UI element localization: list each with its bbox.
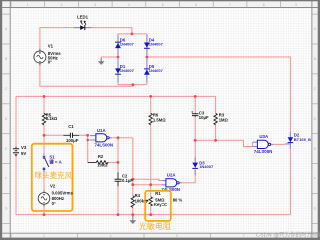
diode D6	[115, 35, 134, 56]
svg-text:B: B	[314, 57, 316, 61]
capacitor C3	[191, 110, 209, 120]
svg-text:S1: S1	[49, 154, 55, 159]
svg-text:1: 1	[27, 3, 29, 7]
svg-text:B: B	[5, 57, 7, 61]
diode D3	[192, 157, 214, 175]
svg-text:咪头麦克风: 咪头麦克风	[35, 170, 73, 180]
source V2	[38, 184, 73, 207]
svg-text:Key=C: Key=C	[154, 202, 167, 207]
svg-text:7: 7	[229, 3, 231, 7]
svg-text:1MΩ: 1MΩ	[219, 118, 229, 123]
svg-text:R2: R2	[98, 154, 104, 159]
svg-text:1N4007: 1N4007	[149, 41, 164, 46]
svg-text:1N4007: 1N4007	[120, 41, 135, 46]
svg-text:10kΩ: 10kΩ	[97, 163, 108, 168]
svg-text:8: 8	[263, 3, 265, 7]
photoresistor box 光敏电阻	[139, 191, 171, 231]
wire bridge bottom rail	[118, 84, 147, 86]
thyristor D2	[285, 132, 311, 149]
ground (bridge left)	[98, 58, 105, 65]
wire R4 bottom and ground stub	[132, 206, 134, 218]
resistor R2	[88, 154, 109, 167]
svg-text:V3: V3	[21, 145, 27, 150]
potentiometer R1	[145, 191, 182, 207]
svg-text:0.1μF: 0.1μF	[122, 178, 133, 183]
svg-text:1N4007: 1N4007	[120, 68, 135, 73]
switch S1	[43, 154, 61, 173]
svg-text:V1: V1	[48, 44, 54, 49]
svg-text:0°: 0°	[52, 201, 56, 206]
svg-text:R4: R4	[135, 193, 141, 198]
svg-text:光敏电阻: 光敏电阻	[139, 221, 171, 231]
svg-text:0°: 0°	[48, 60, 52, 65]
resistor R4	[131, 193, 148, 207]
LED LED1	[74, 14, 92, 30]
wire bridge right column	[146, 34, 148, 85]
resistor R5	[42, 112, 58, 124]
diode D5	[144, 59, 164, 83]
svg-text:2: 2	[61, 3, 63, 7]
svg-text:3: 3	[94, 3, 96, 7]
wire U1A input tie and R2 left	[88, 135, 90, 162]
resistor R6	[149, 113, 166, 125]
mic box 咪头麦克风	[32, 144, 73, 211]
svg-text:C1: C1	[68, 124, 74, 129]
wire ground tap to bridge left mid	[101, 57, 118, 61]
resistor R3	[214, 113, 229, 125]
wire vertical A through C2 to bottom rail	[117, 138, 119, 215]
wire V1 top to LED to bridge top	[40, 28, 132, 51]
nand gate U3A	[252, 134, 273, 154]
svg-text:9: 9	[295, 3, 297, 7]
svg-text:1N4007: 1N4007	[199, 164, 214, 169]
svg-text:7: 7	[243, 234, 245, 238]
ground (bottom rail)	[129, 215, 136, 224]
wire U3A output to SCR gate	[273, 143, 285, 145]
svg-text:V2: V2	[50, 184, 56, 189]
svg-text:键 = A: 键 = A	[49, 159, 61, 166]
svg-text:E: E	[314, 147, 316, 151]
svg-text:U2A: U2A	[167, 173, 177, 178]
wire vertical B	[132, 138, 134, 196]
svg-text:80 %: 80 %	[173, 198, 183, 203]
wire bridge right mid to SCR anode rail	[147, 57, 291, 215]
svg-text:R1: R1	[155, 191, 161, 196]
svg-text:F: F	[5, 177, 7, 181]
svg-text:0.005Vrms: 0.005Vrms	[52, 190, 74, 195]
svg-text:74LS00N: 74LS00N	[95, 142, 114, 147]
capacitor C2	[115, 172, 134, 186]
wire R4 node to U2A lower input	[133, 184, 162, 186]
wire bridge top rail	[118, 33, 147, 35]
svg-text:8.1kΩ: 8.1kΩ	[46, 116, 58, 121]
wire C1 line	[44, 134, 88, 136]
wire left rail V3	[16, 96, 290, 214]
svg-text:CSDN @只为你的时光倾城: CSDN @只为你的时光倾城	[256, 230, 320, 238]
svg-text:E: E	[5, 147, 7, 151]
diode D1	[115, 59, 134, 83]
svg-text:10μF: 10μF	[199, 115, 209, 120]
svg-text:F: F	[314, 177, 316, 181]
svg-text:6: 6	[195, 3, 197, 7]
source V1	[34, 44, 61, 66]
wire bridge left column	[117, 34, 119, 85]
capacitor C1	[63, 124, 79, 143]
svg-text:2: 2	[43, 234, 45, 238]
svg-text:4: 4	[110, 234, 112, 238]
svg-text:5: 5	[176, 234, 178, 238]
nand gate U1A	[90, 128, 113, 148]
svg-text:5V: 5V	[21, 151, 26, 156]
wire lower section top line	[16, 95, 216, 97]
svg-text:4: 4	[128, 3, 130, 7]
wire V1 bottom to bridge bottom	[40, 63, 133, 86]
wire R6 to R1 vertical	[150, 96, 152, 214]
wire U1A output line	[111, 137, 133, 139]
wire node line to U3A inputs	[195, 140, 252, 146]
battery V3	[13, 145, 27, 157]
svg-text:5: 5	[162, 3, 164, 7]
svg-text:74LS00N: 74LS00N	[254, 149, 273, 154]
wire U2A upper input line	[133, 179, 162, 180]
wire C3 branch	[194, 96, 196, 140]
svg-text:1.5MΩ: 1.5MΩ	[153, 118, 166, 123]
wire R2 right lead	[108, 161, 118, 163]
svg-text:LED1: LED1	[77, 14, 89, 19]
svg-text:U1A: U1A	[97, 128, 107, 133]
svg-text:BT169_B: BT169_B	[294, 137, 311, 142]
svg-text:1N4007: 1N4007	[149, 68, 164, 73]
svg-text:100μF: 100μF	[66, 138, 79, 143]
nand gate U2A	[161, 173, 181, 193]
wire R5 branch	[43, 96, 45, 214]
diode D4	[144, 35, 164, 56]
svg-text:U3A: U3A	[259, 134, 269, 139]
wire R3 branch	[215, 96, 217, 140]
wire U2A output to D3 to node	[181, 140, 195, 183]
